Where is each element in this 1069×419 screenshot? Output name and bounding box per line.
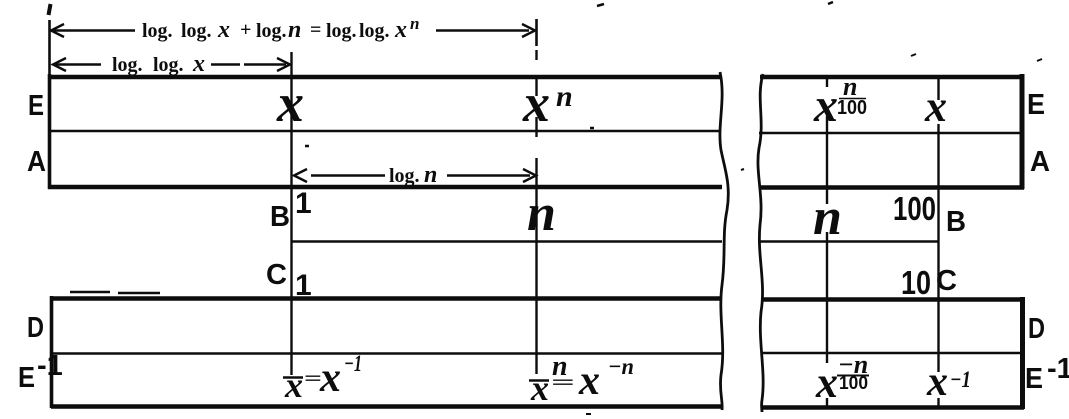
upper body left: left edge	[48, 74, 52, 189]
svg-text:−n: −n	[608, 354, 634, 379]
svg-text:A: A	[1030, 146, 1050, 178]
vertical mark line segments at x^n	[535, 50, 537, 374]
lower body right: right edge	[1020, 297, 1025, 409]
svg-text:x: x	[192, 51, 205, 77]
svg-text:x: x	[394, 17, 407, 43]
svg-text:x: x	[217, 17, 230, 43]
print speck in gap	[741, 169, 744, 170]
print speck in E band	[305, 145, 309, 148]
svg-text:−1: −1	[344, 351, 362, 376]
svg-text:x: x	[319, 355, 341, 401]
svg-text:x: x	[815, 358, 838, 407]
svg-text:E: E	[1027, 89, 1045, 121]
dimension terminator bar at x^n	[535, 19, 538, 46]
lower body right: D/E dividing line	[761, 352, 1021, 354]
lower body right: bottom edge	[761, 405, 1024, 410]
top tick mark above left datum	[49, 4, 51, 15]
svg-text:E: E	[18, 362, 35, 394]
svg-text:1: 1	[295, 187, 312, 220]
print speck top centre	[597, 4, 604, 6]
svg-text:D: D	[27, 312, 44, 344]
print speck below bottom edge	[586, 413, 591, 415]
svg-text:n: n	[527, 185, 556, 242]
svg-text:x: x	[276, 73, 304, 133]
svg-text:log.: log.	[389, 165, 420, 187]
svg-text:log.: log.	[142, 20, 173, 42]
svg-text:100: 100	[839, 373, 868, 393]
upper body right: bottom edge of A	[759, 185, 1024, 190]
svg-text:-1: -1	[1047, 353, 1069, 385]
lower body left: top edge	[50, 296, 722, 301]
svg-text:log.: log.	[181, 20, 212, 42]
mark x^(n/100) on scale E right	[813, 72, 867, 132]
svg-text:B: B	[270, 201, 290, 233]
vertical line at x right (right slide end)	[937, 78, 939, 409]
lower body left: bottom edge	[51, 404, 722, 409]
label x^-1 on scale E^-1 right	[926, 359, 971, 405]
upper body right: top edge	[760, 75, 1024, 80]
torn edge of left body	[720, 72, 728, 410]
svg-text:x: x	[578, 358, 600, 404]
vertical mark line at x^(n/100)	[826, 77, 828, 408]
slide right: B/C dividing line	[760, 240, 938, 242]
svg-text:A: A	[27, 146, 46, 178]
svg-text:100: 100	[837, 97, 867, 119]
svg-text:x: x	[530, 368, 549, 408]
dimension line log. log. x	[53, 58, 290, 71]
slide left: B/C dividing line	[291, 240, 722, 242]
upper body left: E/A dividing line	[49, 130, 721, 132]
svg-text:n: n	[556, 80, 573, 113]
upper body right: right edge	[1020, 74, 1025, 189]
dimension label log. n	[389, 162, 437, 188]
svg-text:C: C	[936, 265, 957, 297]
print speck near right body top	[911, 54, 916, 56]
lower body left: D/E dividing line	[51, 352, 722, 354]
dimension line log. n	[294, 169, 536, 182]
svg-text:x: x	[813, 79, 838, 132]
upper body left: top edge	[48, 75, 721, 80]
dimension line log.log.x + log.n = log.log.x^n	[51, 24, 535, 37]
svg-text:n: n	[410, 14, 419, 33]
label x^(-n/100) on scale E^-1 right	[815, 350, 869, 407]
mark x^n on scale E	[522, 73, 573, 133]
svg-text:=: =	[551, 372, 575, 394]
dimension label log. log. x + log. n = log. log. x^n	[142, 14, 419, 43]
label 1/x = x^-1 on scale E^-1	[283, 351, 362, 405]
lower body right: top edge	[761, 297, 1024, 302]
svg-text:10: 10	[901, 264, 931, 301]
smudge dashes above lower body top edge	[70, 292, 160, 293]
svg-text:n: n	[813, 189, 842, 246]
svg-text:-1: -1	[37, 350, 63, 382]
svg-text:log.: log.	[256, 20, 287, 42]
print speck right of x^n	[590, 127, 594, 130]
print speck far right	[1037, 59, 1042, 61]
svg-text:x: x	[924, 82, 947, 131]
torn edge of right body	[758, 74, 763, 412]
lower body left: left edge	[50, 296, 54, 408]
svg-text:log.: log.	[153, 54, 184, 76]
svg-text:x: x	[926, 359, 948, 405]
left datum vertical line	[48, 20, 51, 76]
svg-text:−1: −1	[950, 367, 971, 392]
svg-text:+: +	[240, 19, 251, 41]
label (1/x)^n = x^-n on scale E^-1	[529, 351, 634, 408]
upper body left: bottom edge of A	[48, 185, 722, 190]
svg-text:log.: log.	[112, 54, 143, 76]
svg-text:n: n	[424, 162, 437, 188]
dimension label log. log. x	[112, 51, 205, 77]
svg-text:C: C	[266, 259, 287, 291]
scale letter E^-1 right	[1025, 353, 1069, 395]
svg-text:D: D	[1028, 313, 1045, 345]
scale letter E^-1 left	[18, 350, 63, 394]
vertical line at x (left slide end, runs to bottom fraction)	[290, 52, 292, 375]
print speck top right	[828, 2, 833, 4]
upper body right: E/A dividing line	[759, 132, 1021, 134]
svg-text:E: E	[1025, 363, 1043, 395]
svg-text:=: =	[310, 19, 321, 41]
svg-text:100: 100	[893, 190, 936, 227]
svg-text:E: E	[28, 90, 44, 122]
svg-text:B: B	[946, 206, 966, 238]
svg-text:log.: log.	[326, 20, 357, 42]
svg-text:n: n	[288, 17, 301, 43]
svg-text:log.: log.	[359, 20, 390, 42]
svg-text:x: x	[284, 365, 303, 405]
